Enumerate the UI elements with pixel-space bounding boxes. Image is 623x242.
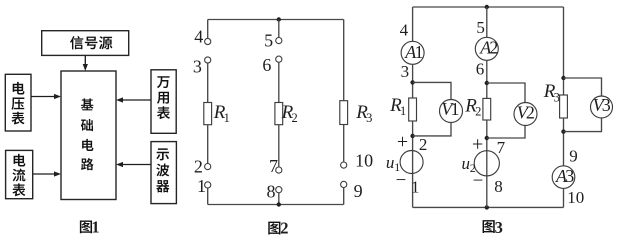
svg-text:5: 5 [476, 18, 485, 37]
svg-text:2: 2 [291, 111, 297, 125]
svg-text:1: 1 [411, 177, 420, 196]
svg-text:A1: A1 [404, 42, 423, 62]
svg-text:A2: A2 [479, 38, 498, 58]
svg-text:9: 9 [569, 147, 578, 166]
svg-text:1: 1 [224, 111, 230, 125]
svg-text:4: 4 [400, 21, 409, 40]
svg-text:1: 1 [197, 176, 206, 196]
svg-text:u: u [386, 153, 395, 172]
svg-text:+: + [472, 134, 483, 156]
svg-text:V3: V3 [593, 95, 611, 115]
svg-text:A3: A3 [555, 166, 574, 186]
svg-text:−: − [473, 170, 484, 191]
svg-text:1: 1 [400, 104, 406, 118]
svg-text:5: 5 [264, 31, 273, 51]
svg-text:−: − [396, 170, 407, 191]
svg-text:u: u [462, 154, 471, 173]
svg-text:6: 6 [476, 60, 485, 79]
svg-text:+: + [397, 131, 408, 153]
svg-text:6: 6 [262, 55, 271, 75]
svg-text:3: 3 [401, 62, 410, 81]
svg-text:7: 7 [497, 138, 506, 157]
svg-text:8: 8 [494, 177, 503, 196]
svg-text:V1: V1 [441, 99, 459, 119]
svg-text:7: 7 [269, 156, 278, 176]
svg-text:10: 10 [567, 188, 584, 207]
svg-text:3: 3 [366, 111, 372, 125]
svg-text:2: 2 [280, 219, 288, 238]
svg-text:8: 8 [267, 181, 276, 201]
svg-text:2: 2 [419, 135, 428, 154]
svg-text:1: 1 [91, 218, 99, 237]
svg-text:V2: V2 [517, 103, 535, 123]
svg-text:9: 9 [354, 181, 363, 201]
svg-text:10: 10 [355, 151, 373, 171]
svg-text:3: 3 [554, 90, 560, 104]
svg-text:3: 3 [193, 56, 202, 76]
svg-text:2: 2 [194, 156, 203, 176]
svg-text:2: 2 [475, 105, 481, 119]
svg-text:3: 3 [495, 218, 503, 237]
svg-text:4: 4 [194, 27, 203, 47]
